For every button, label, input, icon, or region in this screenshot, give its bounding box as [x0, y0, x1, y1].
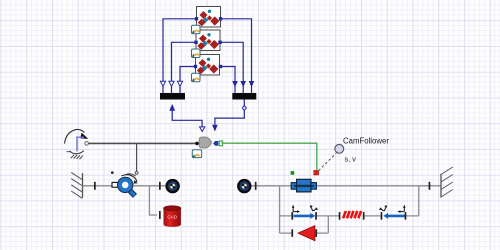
branch line to CAD body	[149, 186, 157, 215]
connector dot table3 right	[219, 65, 222, 68]
middle riser junction	[327, 216, 329, 233]
vertical wire down to cam	[136, 143, 138, 171]
mux1 input connector triangle 1	[160, 81, 165, 86]
small circle end of vertical wire	[135, 172, 138, 175]
lower branch lines	[280, 232, 329, 234]
derivative block 2	[192, 49, 201, 58]
inertia disc 2	[237, 179, 251, 193]
mux2 output diamond connector	[242, 105, 246, 110]
red square connector on mass	[314, 170, 319, 175]
rotational source arc arrow	[65, 129, 85, 143]
damper1 blue arrow	[294, 215, 312, 218]
connector dot table1 right	[219, 17, 222, 20]
small dot above cam shaft	[111, 171, 114, 174]
damper1 state arrow right	[312, 208, 316, 211]
right wall (fixed)	[441, 167, 453, 198]
flange tick before disc1	[159, 182, 161, 190]
connector dot table2 right	[218, 41, 221, 44]
wire mux1 output to move source input	[172, 110, 202, 127]
wire from table2 right to mux2 input2	[220, 42, 243, 93]
main translational line left part	[83, 185, 181, 187]
wire from table3 left to mux1 input3	[180, 67, 196, 94]
damper1 tick left	[291, 212, 293, 220]
mux2 input arrow 3	[249, 81, 255, 87]
mux2 input arrow 1	[232, 81, 238, 87]
upper branch lines	[280, 215, 419, 217]
table block qdd (acceleration)	[196, 55, 220, 76]
rotational source arrowhead	[80, 133, 88, 139]
force tick right	[315, 229, 317, 237]
derivative block 3	[192, 73, 201, 82]
main translational line right part	[251, 185, 441, 187]
input connector triangle at move source	[200, 127, 205, 132]
connector dot table1 left	[195, 17, 198, 20]
move source blue flange connector	[213, 141, 218, 146]
multiplexer mux1	[160, 93, 185, 100]
left wall (fixed)	[71, 172, 82, 198]
sensor dashed line	[319, 153, 337, 171]
green flange square connector	[219, 141, 222, 146]
flange tick before right wall	[429, 182, 431, 190]
small derivative block below move source	[192, 150, 201, 158]
damper1 tick right	[315, 212, 317, 220]
svg-text:CAD: CAD	[167, 215, 177, 220]
svg-text:s, v: s, v	[345, 155, 357, 164]
rotational shaft line to move source	[88, 142, 199, 144]
spring tick left	[339, 212, 341, 220]
connector dot table2 left	[194, 41, 197, 44]
left riser of friction subcircuit	[279, 186, 281, 233]
wire from table1 left to mux1 input1	[163, 19, 197, 93]
force tick left	[291, 229, 293, 237]
flange tick after disc2	[255, 182, 257, 190]
mux1 output arrow (up)	[169, 104, 175, 111]
rotational source flange circle	[85, 142, 89, 146]
right riser of friction subcircuit	[418, 186, 420, 216]
cam rotation arrow	[122, 175, 137, 182]
translational mass (follower)	[291, 179, 316, 192]
mux1 input connector triangle 3	[177, 81, 182, 86]
svg-text:CamFollower: CamFollower	[343, 137, 389, 146]
rotational source blue tick	[66, 151, 71, 153]
damper2 tick right	[405, 212, 407, 220]
cam shaft white rect	[112, 182, 122, 187]
wire from table1 right to mux2 input3	[221, 19, 252, 93]
green square connector on mass	[291, 171, 295, 175]
spring tick right	[363, 212, 365, 220]
table block qd (velocity)	[196, 30, 220, 51]
CAD cylinder body	[164, 206, 181, 227]
damper2 blue arrow (left pointing)	[387, 215, 405, 218]
cam ring	[117, 177, 135, 196]
damper2 state arrow right	[400, 207, 404, 211]
junction dot before move source	[195, 142, 199, 146]
sensor circle	[335, 144, 344, 153]
wire from table3 right to mux2 input1	[221, 67, 236, 94]
damper1 state arrow left	[293, 207, 297, 211]
rotational source blue L line	[77, 137, 84, 151]
cam rotation arrowhead	[134, 180, 138, 184]
table block q (position)	[197, 7, 221, 28]
derivative block 1	[192, 25, 201, 34]
wire mux2 output down	[215, 100, 244, 125]
flange tick at CAD	[159, 211, 161, 219]
wire arrow into move source (down)	[212, 125, 218, 132]
multiplexer mux2	[232, 93, 256, 100]
green translational wire	[222, 143, 317, 170]
mux1 input connector triangle 2	[169, 81, 174, 86]
mux2 input arrow 2	[240, 81, 246, 87]
red spring coil	[343, 211, 361, 218]
rotational source ground hatches	[71, 155, 83, 159]
rotational source base arc	[69, 151, 84, 154]
flange tick left of cam	[94, 182, 96, 190]
damper2 state arrow left	[381, 208, 385, 211]
move source body (gray pentagon)	[199, 137, 211, 148]
red force cone	[298, 226, 315, 241]
wire from table2 left to mux1 input2	[172, 42, 197, 93]
connector dot table3 left	[194, 65, 197, 68]
damper2 tick left	[381, 212, 383, 220]
inertia disc 1	[165, 179, 179, 193]
